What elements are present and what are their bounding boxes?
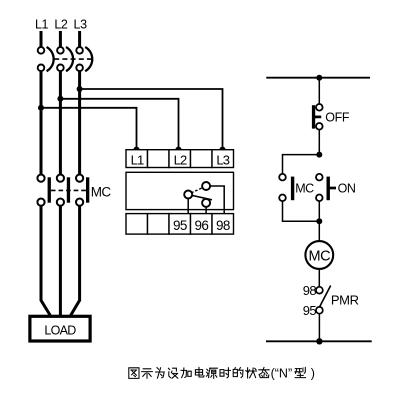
svg-text:L1: L1: [35, 18, 49, 32]
wire L2 to load: [59, 206, 62, 316]
wire feed L2 to relay terminal L2: [60, 99, 178, 150]
relay PMR body middle box: [126, 172, 234, 209]
relay block bottom terminal row: [126, 214, 234, 235]
svg-text:L2: L2: [174, 153, 187, 168]
control circuit top bus: [266, 77, 370, 79]
pushbutton OFF (NC): actuator bar: [312, 105, 315, 128]
circuit breaker CB pole 1: [38, 47, 54, 71]
wire phase L3 vertical (breaker to MC): [78, 71, 81, 175]
relay contact blade (common to NC): [192, 195, 212, 199]
relay changeover contact: wire NO to 98: [210, 186, 225, 214]
wire L1 stub: [40, 31, 43, 47]
wire MC aux bottom connector: [283, 201, 320, 221]
auxiliary contact MC (holding): terminal circles: [279, 174, 286, 181]
relay contact NO terminal circle: [202, 182, 210, 190]
relay changeover contact: wire NC drop to 96: [205, 206, 207, 214]
node branch top junction: [316, 152, 322, 158]
wire L2 stub: [59, 31, 62, 47]
node branch bottom junction: [316, 218, 322, 224]
svg-text:96: 96: [194, 218, 208, 233]
wire phase L2 vertical (breaker to MC): [59, 71, 62, 175]
wire branch top connector: [283, 155, 320, 174]
relay changeover contact: wire common drop to 95: [187, 198, 189, 214]
svg-text:95: 95: [173, 218, 187, 233]
circuit breaker CB pole 2: [57, 47, 73, 71]
wire PMR to bottom bus: [318, 314, 320, 342]
pushbutton ON (NO): terminal circles: [316, 174, 323, 181]
wire feed L1 to relay terminal L1: [41, 108, 137, 150]
pushbutton ON: tick: [330, 187, 337, 190]
relay contact NC terminal circle: [202, 199, 210, 207]
relay contact dashed actuator link: [191, 188, 203, 193]
pushbutton OFF: terminal circles: [316, 104, 323, 111]
svg-text:MC: MC: [91, 185, 112, 200]
node junction on bottom bus: [316, 338, 322, 344]
svg-text:LOAD: LOAD: [44, 324, 76, 338]
svg-text:OFF: OFF: [325, 110, 350, 124]
node junction on L2: [57, 96, 63, 102]
relay contact common terminal circle: [184, 191, 192, 199]
wire phase L1 vertical (breaker to MC): [40, 71, 43, 175]
circuit breaker CB pole 3: [76, 47, 92, 71]
svg-text:(“N”: (“N”: [271, 367, 293, 381]
node junction on L3: [77, 86, 83, 92]
svg-text:L3: L3: [216, 153, 229, 168]
pushbutton ON: actuator bar: [327, 177, 330, 201]
svg-text:L3: L3: [74, 18, 88, 32]
contactor MC main contacts pole 3: [76, 175, 89, 206]
wire bus to OFF button: [318, 78, 320, 105]
thermal relay contact PMR: terminal 95 circle: [316, 307, 323, 314]
svg-text:L2: L2: [54, 18, 68, 32]
wire coil to PMR contact: [318, 269, 320, 287]
contactor MC main contacts pole 2: [57, 175, 70, 206]
svg-text:L1: L1: [131, 153, 144, 168]
thermal relay contact PMR: terminal 98 circle: [316, 287, 323, 294]
breaker mechanical trip dashed link: [54, 58, 92, 60]
svg-text:98: 98: [216, 218, 230, 233]
caption: 图示为设加电源时的状态 (stroke-drawn CJK): [129, 367, 306, 378]
control circuit bottom bus: [266, 340, 372, 342]
node junction on top bus: [316, 75, 322, 81]
coil MC (contactor coil): [305, 241, 333, 269]
svg-text:MC: MC: [309, 248, 331, 264]
relay block top terminal row: [126, 150, 234, 168]
node junction on L1: [38, 105, 44, 111]
node relay terminal dot L2: [175, 147, 181, 153]
wire L1 to load: [41, 206, 50, 316]
wire L3 stub: [78, 31, 81, 47]
svg-text:MC: MC: [295, 181, 314, 195]
svg-text:PMR: PMR: [331, 293, 359, 308]
wire ON down to junction: [318, 201, 320, 241]
node relay terminal dot L1: [133, 147, 139, 153]
wire feed L3 to relay terminal L3: [80, 89, 223, 150]
LOAD box: [30, 316, 90, 341]
svg-text:): ): [311, 367, 315, 381]
node relay terminal dot L3: [219, 147, 225, 153]
wire L3 to load: [71, 206, 80, 316]
pushbutton OFF: contact tick: [314, 116, 321, 119]
wire OFF to branch node: [318, 130, 320, 155]
svg-text:ON: ON: [338, 181, 356, 195]
auxiliary contact MC: bar: [291, 177, 294, 201]
thermal relay contact PMR: blade: [320, 286, 331, 307]
svg-text:95: 95: [303, 303, 317, 318]
svg-text:98: 98: [303, 283, 317, 298]
contactor MC dashed mechanical link: [51, 189, 86, 191]
contactor MC main contacts pole 1: [37, 175, 50, 206]
